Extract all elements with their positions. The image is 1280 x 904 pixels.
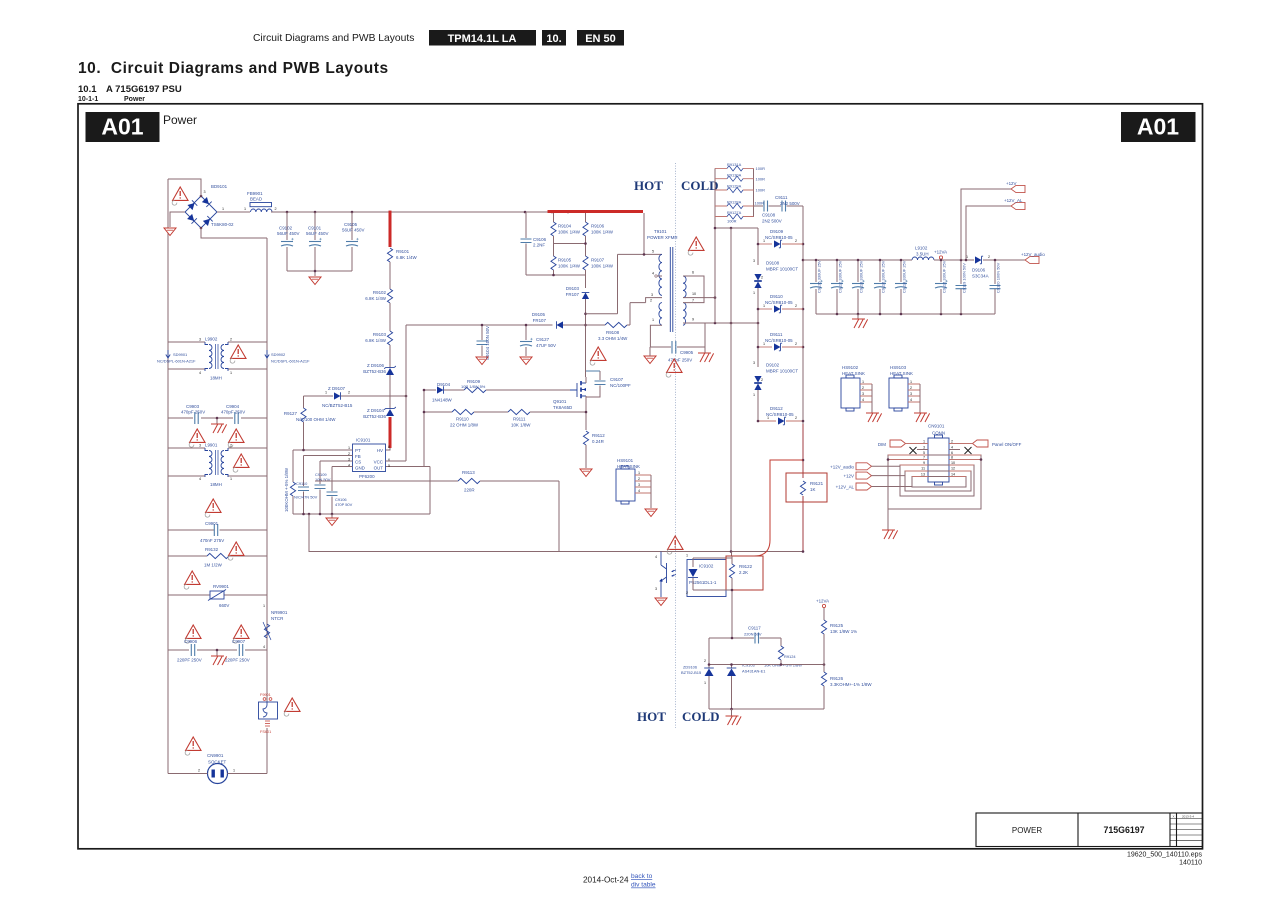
optocoupler IC9102 xyxy=(687,560,726,597)
thick red bus segment top xyxy=(389,211,392,247)
svg-text:R9127: R9127 xyxy=(284,411,298,416)
wire LED anode to hook xyxy=(693,557,732,559)
svg-text:R9127A: R9127A xyxy=(727,210,742,215)
wire right rail lower xyxy=(266,728,268,774)
svg-text:VCC: VCC xyxy=(374,460,384,465)
svg-text:10-1-1: 10-1-1 xyxy=(78,96,98,103)
ground between C9903 C9904 xyxy=(211,424,227,433)
svg-text:NC/100PF: NC/100PF xyxy=(610,383,631,388)
svg-text:2: 2 xyxy=(275,207,277,211)
svg-text:1: 1 xyxy=(652,318,654,322)
capacitor C9119 xyxy=(960,260,962,284)
svg-text:2N2 500V: 2N2 500V xyxy=(762,219,782,224)
capacitor C9117 xyxy=(755,633,759,644)
svg-text:2013-3-4: 2013-3-4 xyxy=(1182,815,1194,819)
capacitor C9115 xyxy=(940,260,942,282)
shield rect 3 xyxy=(905,471,971,491)
schematic frame xyxy=(78,104,1203,849)
svg-text:4: 4 xyxy=(951,446,953,450)
svg-text:660V: 660V xyxy=(219,603,229,608)
svg-text:C9906: C9906 xyxy=(184,639,198,644)
resistor R9121 in box xyxy=(786,473,827,502)
node dots on bus xyxy=(286,211,289,214)
wire right rail upper xyxy=(266,238,268,702)
svg-text:EN 50: EN 50 xyxy=(585,33,616,45)
zener ZD9106b xyxy=(708,665,710,669)
resistor R9129A xyxy=(715,189,754,191)
spark gap SD9901 xyxy=(166,350,170,358)
svg-text:SD9902: SD9902 xyxy=(271,352,285,357)
svg-text:C9901: C9901 xyxy=(205,521,219,526)
svg-text:MBRF 10100CT: MBRF 10100CT xyxy=(766,267,798,272)
warning triangle above Q9101 xyxy=(590,347,606,365)
svg-text:HEAT SINK: HEAT SINK xyxy=(617,464,640,469)
svg-text:6: 6 xyxy=(951,451,953,455)
svg-text:2: 2 xyxy=(704,659,706,663)
warning triangle mid column xyxy=(205,499,221,517)
svg-text:R9125: R9125 xyxy=(830,623,844,628)
ground at output rail xyxy=(857,314,859,319)
svg-text:10K 1/8W: 10K 1/8W xyxy=(511,423,531,428)
ground under input caps xyxy=(309,277,321,285)
wire long feedback to secondary xyxy=(309,514,803,552)
svg-text:NR9901: NR9901 xyxy=(271,610,288,615)
wire main HV bus xyxy=(271,211,548,213)
warning triangle under C9905 xyxy=(666,359,682,377)
diode D9109 xyxy=(758,243,772,245)
svg-text:D9111: D9111 xyxy=(770,332,783,337)
svg-text:1: 1 xyxy=(763,342,765,346)
wire C9117 row xyxy=(709,637,754,639)
svg-text:NC/SR810-05: NC/SR810-05 xyxy=(765,235,793,240)
wire stack bottom to diodes xyxy=(714,217,716,323)
svg-text:8: 8 xyxy=(951,456,953,460)
wire aux vertical to feedback xyxy=(730,228,732,552)
svg-text:3: 3 xyxy=(753,259,755,263)
svg-text:C9111: C9111 xyxy=(775,195,788,200)
capacitor C9126 xyxy=(815,260,817,282)
svg-text:F9901: F9901 xyxy=(260,693,271,697)
svg-text:D9109: D9109 xyxy=(770,229,784,234)
svg-text:1N4148W: 1N4148W xyxy=(432,398,453,403)
svg-text:3: 3 xyxy=(910,392,912,396)
svg-text:Circuit Diagrams and PWB Layou: Circuit Diagrams and PWB Layouts xyxy=(253,33,414,44)
svg-text:4: 4 xyxy=(652,272,654,276)
wire xyxy=(389,345,391,377)
svg-text:C9110: C9110 xyxy=(296,481,308,486)
svg-text:AS431AN-E1: AS431AN-E1 xyxy=(742,669,765,674)
svg-text:Z D9106: Z D9106 xyxy=(367,363,385,368)
wire C9903/C9904 row xyxy=(168,418,267,424)
wire pin3 to pin2 tie xyxy=(646,298,662,303)
thick red bus top right xyxy=(548,210,644,213)
A01 block left xyxy=(86,112,160,142)
wire +12V tap xyxy=(961,189,1011,260)
svg-text:N/C/100 OHM 1/4W: N/C/100 OHM 1/4W xyxy=(296,417,336,422)
svg-text:56UF 450V: 56UF 450V xyxy=(277,231,299,236)
capacitor C9118 xyxy=(900,260,902,282)
svg-text:1: 1 xyxy=(230,371,232,375)
zener ZD9106 xyxy=(384,366,396,375)
wire anode rail xyxy=(757,228,759,265)
svg-text:R9106: R9106 xyxy=(591,224,605,229)
wire output bottom rail xyxy=(816,313,995,315)
resistor R9108 xyxy=(586,324,606,326)
capacitor C9110 xyxy=(303,456,305,487)
svg-text:NC/DSPL-601N-A21F: NC/DSPL-601N-A21F xyxy=(157,359,196,364)
capacitor C9905 row xyxy=(650,346,671,348)
svg-text:2: 2 xyxy=(198,769,200,773)
wire clamp to pin5 riser xyxy=(586,254,618,313)
resistor R9102 xyxy=(387,289,392,303)
svg-text:+12V: +12V xyxy=(844,474,855,479)
svg-text:A01: A01 xyxy=(101,114,143,140)
svg-text:1: 1 xyxy=(753,393,755,397)
svg-text:100K 1/4W: 100K 1/4W xyxy=(591,264,614,269)
resistor R9127A xyxy=(715,216,754,218)
warning triangle left xyxy=(184,571,200,589)
svg-text:R9122: R9122 xyxy=(739,564,753,569)
resistor R9113 xyxy=(315,480,458,482)
wire xyxy=(389,303,391,331)
resistor R9105 xyxy=(553,244,555,257)
svg-text:+12VA: +12VA xyxy=(816,599,829,604)
svg-text:NC/SR810-05: NC/SR810-05 xyxy=(766,412,794,417)
svg-text:COLD: COLD xyxy=(682,709,720,724)
resistor R9131A xyxy=(715,167,754,169)
svg-text:C9104 100N 50V: C9104 100N 50V xyxy=(485,326,490,360)
svg-text:C9907: C9907 xyxy=(232,639,246,644)
svg-text:+12V: +12V xyxy=(1006,181,1017,186)
svg-text:RV9901: RV9901 xyxy=(213,584,229,589)
svg-text:C9106: C9106 xyxy=(533,237,547,242)
wire C9906/C9907 row xyxy=(168,650,267,656)
wire switch node row xyxy=(406,324,553,326)
capacitor C9120 xyxy=(994,260,996,284)
resistor R9111 xyxy=(508,409,530,414)
svg-text:Panel ON/OFF: Panel ON/OFF xyxy=(992,442,1022,447)
diode D9111 xyxy=(758,346,772,348)
svg-text:2: 2 xyxy=(862,386,864,390)
svg-text:A 715G6197 PSU: A 715G6197 PSU xyxy=(106,84,182,95)
svg-text:C9127: C9127 xyxy=(536,337,550,342)
zener ZD9107 row xyxy=(304,395,334,397)
svg-text:12: 12 xyxy=(951,467,955,471)
resistor R9104 xyxy=(553,212,555,222)
diode D9103 xyxy=(582,293,590,300)
svg-text:3: 3 xyxy=(199,338,201,342)
svg-text:3: 3 xyxy=(923,446,925,450)
svg-text:D9106: D9106 xyxy=(972,268,986,273)
connector row stubs xyxy=(888,454,981,456)
resistor R9127 xyxy=(303,396,305,408)
svg-text:R9124: R9124 xyxy=(784,654,796,659)
svg-text:2: 2 xyxy=(795,416,797,420)
svg-text:C9115 330UF 25V: C9115 330UF 25V xyxy=(942,260,947,293)
wire CS row xyxy=(320,460,353,462)
resistor R9126 xyxy=(823,665,825,673)
secondary winding xyxy=(683,276,686,298)
warning triangle on barrier xyxy=(667,536,683,554)
svg-text:C9119 100N 50V: C9119 100N 50V xyxy=(962,263,967,293)
svg-text:7: 7 xyxy=(923,456,925,460)
svg-text:14: 14 xyxy=(951,473,955,477)
svg-text:1: 1 xyxy=(704,681,706,685)
svg-text:0.24R: 0.24R xyxy=(592,439,604,444)
wire mid row xyxy=(709,664,824,666)
svg-text:4: 4 xyxy=(655,555,657,559)
svg-text:4: 4 xyxy=(862,398,864,402)
svg-text:R9103: R9103 xyxy=(373,332,387,337)
svg-text:DIM: DIM xyxy=(878,442,886,447)
wire snubber bottom rail xyxy=(526,270,586,288)
dual diode D9102 xyxy=(754,376,762,383)
svg-text:L9902: L9902 xyxy=(205,337,218,342)
svg-text:TPM14.1L LA: TPM14.1L LA xyxy=(448,33,517,45)
node +12VA bottom xyxy=(822,604,825,607)
wire shield ground xyxy=(887,509,889,530)
svg-text:S3C34A: S3C34A xyxy=(972,274,989,279)
svg-text:3: 3 xyxy=(655,587,657,591)
A01 block right xyxy=(1121,112,1196,142)
svg-text:R9113: R9113 xyxy=(462,470,475,475)
svg-text:OUT: OUT xyxy=(374,465,384,470)
svg-text:CN9101: CN9101 xyxy=(928,424,945,429)
output flag +12V_audio xyxy=(1025,256,1039,263)
svg-text:FB9901: FB9901 xyxy=(247,191,263,196)
svg-text:CN9901: CN9901 xyxy=(207,753,224,758)
svg-text:R9112: R9112 xyxy=(592,433,605,438)
svg-text:R9102: R9102 xyxy=(373,290,387,295)
warning triangle at fuse xyxy=(284,698,300,716)
svg-text:1: 1 xyxy=(230,477,232,481)
svg-text:4: 4 xyxy=(910,398,912,402)
svg-text:L9901: L9901 xyxy=(205,443,218,448)
svg-text:C9117: C9117 xyxy=(748,626,761,631)
svg-text:6.8K 1/4W: 6.8K 1/4W xyxy=(396,255,418,260)
dual diode D9108 xyxy=(754,274,762,281)
svg-text:HS9102: HS9102 xyxy=(842,365,859,370)
svg-text:47UF 50V: 47UF 50V xyxy=(536,343,556,348)
svg-text:POWER XFMR: POWER XFMR xyxy=(647,235,678,240)
svg-text:BZT52-B36: BZT52-B36 xyxy=(363,369,386,374)
svg-text:2: 2 xyxy=(988,255,990,259)
svg-text:D9103: D9103 xyxy=(566,286,580,291)
svg-text:2: 2 xyxy=(638,477,640,481)
warning triangles under C9903 C9904 xyxy=(189,429,205,447)
wire IC bottom rail xyxy=(293,467,430,515)
capacitor C9109 xyxy=(319,461,321,484)
svg-text:R9107: R9107 xyxy=(591,258,605,263)
ground bottom xyxy=(731,709,733,716)
svg-text:div table: div table xyxy=(631,882,656,889)
svg-text:10R 1/8W 5%: 10R 1/8W 5% xyxy=(461,384,486,389)
svg-text:FR107: FR107 xyxy=(566,292,580,297)
svg-text:2: 2 xyxy=(795,239,797,243)
svg-text:1: 1 xyxy=(233,769,235,773)
capacitor C9127 xyxy=(525,325,527,340)
svg-text:N/C/47N 50V: N/C/47N 50V xyxy=(294,495,318,500)
diode D9112 xyxy=(758,420,776,422)
svg-text:SD9901: SD9901 xyxy=(173,352,187,357)
core xyxy=(670,247,673,332)
resistor R9130A xyxy=(715,178,754,180)
fuse F9901 xyxy=(259,698,278,726)
resistor R9128 vertical xyxy=(292,450,294,482)
wire pin9 row xyxy=(683,322,758,324)
wire after L9102 xyxy=(934,259,974,261)
svg-text:3: 3 xyxy=(199,444,201,448)
svg-text:PF6200: PF6200 xyxy=(359,474,375,479)
svg-text:+12VA: +12VA xyxy=(934,250,947,255)
resistor R9128A xyxy=(715,205,754,207)
svg-text:D9108: D9108 xyxy=(766,261,780,266)
svg-text:19620_500_140110.eps: 19620_500_140110.eps xyxy=(1127,852,1203,859)
svg-text:5: 5 xyxy=(388,464,390,468)
svg-text:Power: Power xyxy=(124,96,145,103)
diode D9110 xyxy=(758,308,772,310)
wire bus to xfmr pin5 xyxy=(618,213,663,254)
svg-text:D9102: D9102 xyxy=(766,363,780,368)
svg-text:+12V_audio: +12V_audio xyxy=(1021,252,1045,257)
svg-text:TK8A65D: TK8A65D xyxy=(553,405,572,410)
svg-text:2: 2 xyxy=(795,304,797,308)
wire pin1 down xyxy=(650,325,662,347)
header tag 10. xyxy=(542,30,566,46)
resistor R9132 xyxy=(168,555,267,557)
header tag EN 50 xyxy=(577,30,624,46)
svg-text:L9102: L9102 xyxy=(915,246,928,251)
svg-text:NC/SR810-05: NC/SR810-05 xyxy=(765,338,793,343)
svg-text:C9101: C9101 xyxy=(308,226,322,231)
wire xyxy=(389,262,391,289)
wire to switch node xyxy=(585,299,587,377)
svg-text:IC9101: IC9101 xyxy=(356,438,371,443)
wire xyxy=(389,375,391,409)
svg-text:R9108: R9108 xyxy=(606,330,620,335)
svg-text:10.1: 10.1 xyxy=(78,84,97,95)
opto phototransistor xyxy=(661,552,667,598)
svg-text:HOT: HOT xyxy=(634,178,663,193)
svg-text:PT: PT xyxy=(355,448,361,453)
svg-text:18MH: 18MH xyxy=(210,482,222,487)
svg-text:3: 3 xyxy=(638,483,640,487)
svg-text:100K 1/4W: 100K 1/4W xyxy=(558,230,581,235)
svg-text:2: 2 xyxy=(761,276,763,280)
wire GND row xyxy=(332,466,353,468)
svg-text:7: 7 xyxy=(692,299,694,303)
svg-text:18MH: 18MH xyxy=(210,376,222,381)
svg-text:9: 9 xyxy=(923,461,925,465)
svg-text:NC/BZT52-B15: NC/BZT52-B15 xyxy=(322,403,353,408)
svg-text:13K 1/8W 1%: 13K 1/8W 1% xyxy=(830,629,857,634)
svg-text:+12V_audio: +12V_audio xyxy=(830,464,854,469)
svg-text:R9126: R9126 xyxy=(830,676,844,681)
resistor R9110 xyxy=(452,409,474,414)
svg-text:100R: 100R xyxy=(756,188,766,193)
svg-text:2: 2 xyxy=(230,444,232,448)
wire stack rails xyxy=(715,168,754,217)
svg-text:D9112: D9112 xyxy=(770,406,783,411)
svg-text:4: 4 xyxy=(199,477,201,481)
svg-text:470pF 250V: 470pF 250V xyxy=(668,358,692,363)
output flag +12V xyxy=(1011,185,1025,192)
capacitor C9903 xyxy=(195,412,198,424)
capacitor C9113 xyxy=(857,260,859,282)
svg-text:9: 9 xyxy=(692,318,694,322)
red hook wire to opto LED xyxy=(732,460,803,556)
svg-text:BEAD: BEAD xyxy=(250,197,262,202)
svg-text:HOT: HOT xyxy=(637,709,666,724)
svg-text:FR107: FR107 xyxy=(533,318,547,323)
wire aux rail into R9122 xyxy=(731,552,733,557)
svg-text:C9113 330UF 25V: C9113 330UF 25V xyxy=(859,260,864,293)
svg-text:1: 1 xyxy=(767,416,769,420)
svg-text:1: 1 xyxy=(325,391,327,395)
svg-text:140110: 140110 xyxy=(1179,860,1202,867)
svg-text:3.5UH: 3.5UH xyxy=(916,252,929,257)
svg-text:Power: Power xyxy=(163,113,197,127)
opto coupling arrows xyxy=(672,570,677,576)
resistor R9112 xyxy=(583,431,588,445)
svg-text:R9131A: R9131A xyxy=(727,162,742,167)
svg-text:R9128A: R9128A xyxy=(727,200,742,205)
wire pin4 open stub xyxy=(657,275,662,277)
MOSFET Q9101 xyxy=(570,381,586,398)
svg-text:+12V_AL: +12V_AL xyxy=(1004,198,1023,203)
resistor R9125 xyxy=(823,608,825,620)
svg-text:2: 2 xyxy=(761,378,763,382)
svg-text:100KOHM +-5% 1/8W: 100KOHM +-5% 1/8W xyxy=(284,467,289,512)
svg-text:11: 11 xyxy=(921,467,925,471)
svg-text:22 OHM 1/8W: 22 OHM 1/8W xyxy=(450,423,479,428)
svg-text:1: 1 xyxy=(763,239,765,243)
svg-text:C9108: C9108 xyxy=(762,213,776,218)
resistor R9103 xyxy=(387,331,392,345)
svg-text:6.8K 1/4W: 6.8K 1/4W xyxy=(365,296,387,301)
svg-text:R9101: R9101 xyxy=(396,249,410,254)
wire PT row xyxy=(293,449,353,451)
header tag TPM14.1L LA xyxy=(429,30,536,46)
svg-text:56UF 450V: 56UF 450V xyxy=(306,231,328,236)
svg-text:8: 8 xyxy=(388,445,390,449)
svg-text:C9904: C9904 xyxy=(226,404,240,409)
capacitor C9106 xyxy=(525,212,527,238)
svg-text:NTCR: NTCR xyxy=(271,616,283,621)
shunt reg IC9103 xyxy=(731,665,733,669)
capacitor C9906 xyxy=(191,644,194,656)
zener ZD9104 xyxy=(384,407,396,416)
svg-text:220PF 250V: 220PF 250V xyxy=(177,658,202,663)
svg-text:Z D9104: Z D9104 xyxy=(367,408,385,413)
wire bridge left to ground xyxy=(170,212,185,227)
svg-text:C9105: C9105 xyxy=(344,222,358,227)
opto LED xyxy=(692,558,694,567)
svg-text:56UF 450V: 56UF 450V xyxy=(342,228,364,233)
svg-text:D9104: D9104 xyxy=(437,382,451,387)
svg-text:2: 2 xyxy=(795,342,797,346)
svg-text:R9104: R9104 xyxy=(558,224,572,229)
capacitor C9907 xyxy=(239,644,242,656)
svg-text:C9107: C9107 xyxy=(610,377,624,382)
svg-text:C9102: C9102 xyxy=(279,226,293,231)
svg-text:Q9101: Q9101 xyxy=(553,399,567,404)
output flag +12V_AL xyxy=(1011,202,1025,209)
resistor R9122 in box xyxy=(726,556,763,590)
svg-text:1: 1 xyxy=(763,304,765,308)
svg-text:100R: 100R xyxy=(756,176,766,181)
capacitor C9106b xyxy=(331,467,333,492)
